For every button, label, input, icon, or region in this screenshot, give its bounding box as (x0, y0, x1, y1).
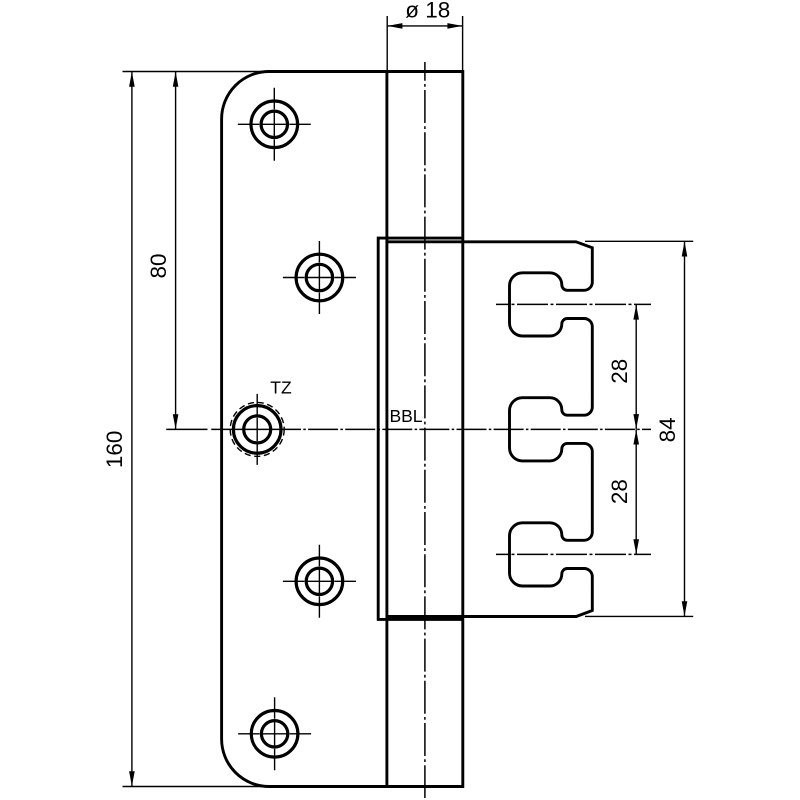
screw hole H2 outer (296, 254, 343, 301)
svg-text:BBL: BBL (389, 406, 422, 426)
dim 84 extension bottom (585, 615, 693, 617)
dim 28 lower arrow top (633, 430, 639, 445)
dim 80 arrow bottom (173, 414, 179, 429)
dim 28 upper arrow top (633, 305, 639, 320)
leaf/barrel fold line (385, 72, 388, 787)
H1 crosshair horizontal (238, 123, 311, 125)
dim 84 text (655, 417, 680, 442)
dim ø18 line (387, 25, 462, 27)
dim 84 extension top (585, 240, 693, 242)
BBL horizontal centerline dash-dot (308, 428, 651, 430)
screw hole H1 outer (251, 101, 298, 148)
frame leaf with three T-slots (388, 242, 593, 617)
svg-text:28: 28 (607, 479, 632, 504)
H4 crosshair vertical (318, 545, 320, 618)
BBL horizontal centerline left segments (166, 428, 306, 430)
svg-text:84: 84 (655, 417, 680, 442)
dim 28 lower text (607, 479, 632, 504)
H2 crosshair horizontal (283, 277, 356, 279)
screw hole H1 inner (261, 111, 287, 137)
screw hole H4 outer (296, 558, 343, 605)
dim ø18 extension line left (386, 16, 388, 72)
svg-text:ø 18: ø 18 (405, 0, 450, 23)
dim 28 lower arrow bottom (633, 539, 639, 554)
top-left extension line (123, 71, 271, 73)
svg-text:160: 160 (102, 431, 127, 469)
dim 160 text (102, 431, 127, 469)
dim 28 upper text (607, 359, 632, 384)
screw hole H3 (TZ) inner (244, 416, 271, 443)
dim 28 lower line (635, 429, 637, 554)
dim 28 upper arrow bottom (633, 414, 639, 429)
frame knuckle rectangle (378, 238, 463, 619)
svg-text:28: 28 (607, 359, 632, 384)
H5 crosshair vertical (274, 697, 276, 770)
H1 crosshair vertical (273, 88, 275, 161)
dim 28 upper line (635, 304, 637, 429)
dim ø18 arrow right (447, 23, 462, 29)
H4 crosshair horizontal (283, 580, 356, 582)
dim 84 arrow top (682, 242, 688, 257)
dim 80 line (175, 72, 177, 430)
H3 crosshair vertical (256, 394, 258, 465)
dim 84 arrow bottom (682, 601, 688, 616)
bottom-left extension line (123, 786, 266, 788)
screw hole H3 (TZ) outer (233, 406, 281, 454)
dim 160 line (131, 72, 133, 787)
barrel vertical centerline (424, 62, 426, 798)
svg-text:80: 80 (146, 253, 171, 278)
svg-text:TZ: TZ (270, 378, 292, 398)
dim 160 arrow bottom (129, 771, 135, 786)
dim 84 line (684, 241, 686, 616)
screw hole H5 inner (261, 721, 287, 747)
H5 crosshair horizontal (238, 733, 311, 735)
TZ dashed circle (230, 402, 284, 456)
screw hole H4 inner (306, 568, 332, 594)
dim ø18 extension line right (462, 16, 464, 72)
screw hole H5 outer (251, 711, 298, 758)
screw hole H2 inner (306, 264, 332, 290)
dim 80 arrow top (173, 72, 179, 87)
dim 80 text (146, 253, 171, 278)
dim ø18 arrow left (387, 23, 402, 29)
H2 crosshair vertical (318, 241, 320, 314)
dim 160 arrow top (129, 72, 135, 87)
slot 1 centerline (496, 303, 651, 305)
slot 3 centerline (496, 553, 651, 555)
door leaf plate outline (222, 72, 463, 787)
